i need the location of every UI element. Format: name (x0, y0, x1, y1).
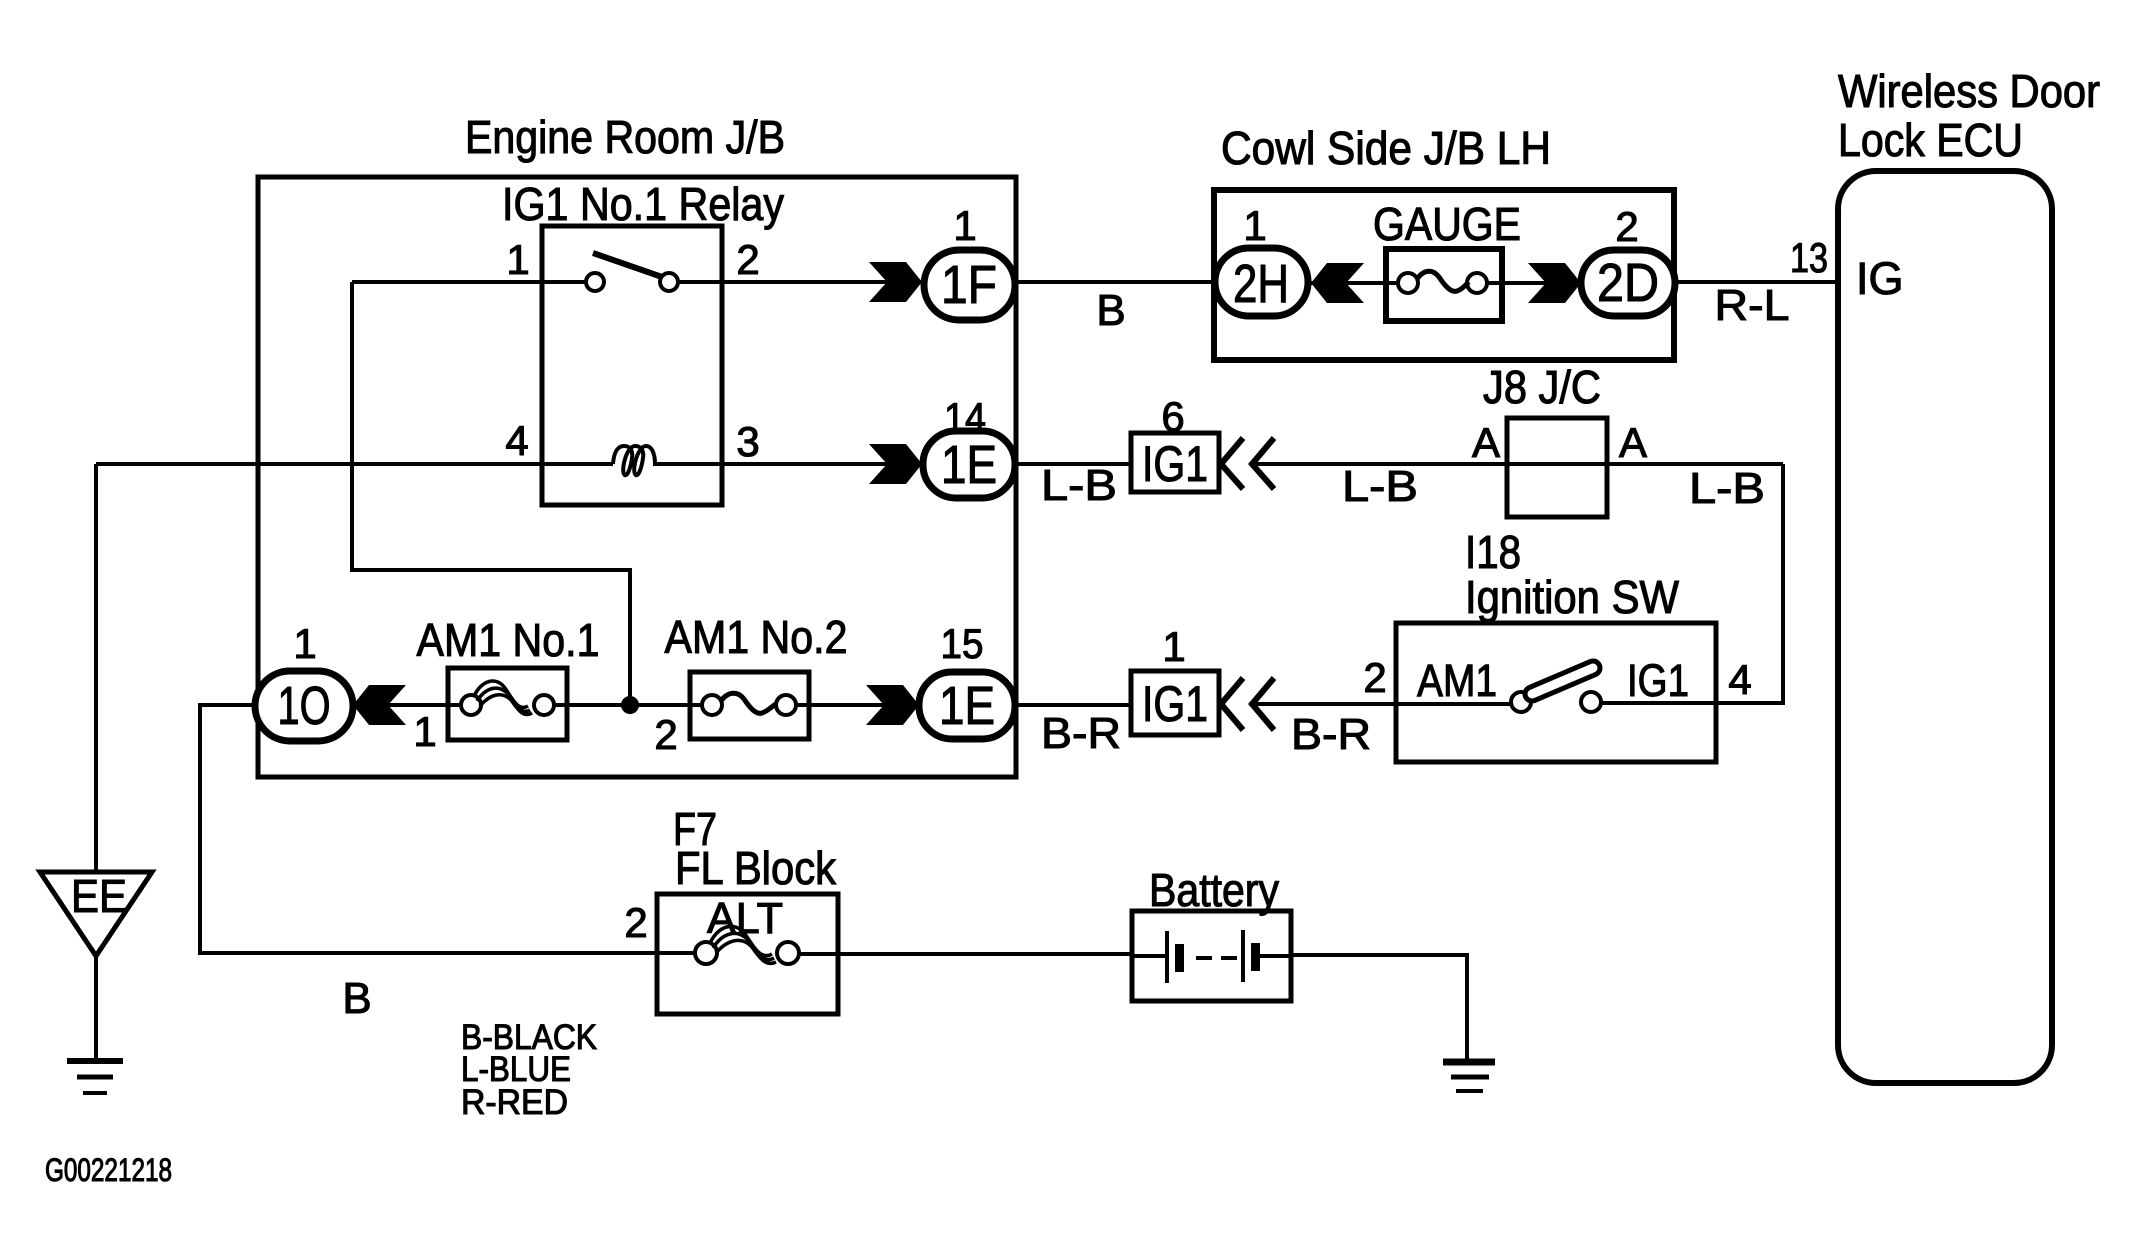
wire: FL block to battery net B (788, 952, 1134, 956)
svg-text:L-B: L-B (1689, 464, 1765, 513)
relay K1 switch blade (593, 253, 662, 277)
fuse F3 GAUGE element (1398, 271, 1487, 293)
battery BAT1 box (1132, 911, 1291, 1001)
svg-text:EE: EE (71, 870, 127, 922)
svg-text:Cowl Side J/B LH: Cowl Side J/B LH (1221, 122, 1551, 174)
arrow out of 1O leftward (353, 685, 406, 725)
svg-text:2: 2 (654, 711, 677, 758)
svg-text:Engine Room J/B: Engine Room J/B (465, 111, 785, 163)
wire: relay coil pin3 to connector 1E (653, 462, 925, 466)
wire: battery positive to ground (1289, 955, 1467, 1061)
wire: AM1 No.2 to 1E row3 (786, 703, 921, 707)
ECU U1: Wireless Door Lock ECU body (1838, 171, 2052, 1083)
svg-text:4: 4 (1728, 656, 1751, 703)
wire: relay pin1 vertical jog to junction (352, 282, 630, 705)
svg-text:G00221218: G00221218 (45, 1152, 172, 1188)
wire: 2D to ECU pin13 net R-L (1673, 280, 1841, 284)
wire: AM1 No.1 to AM1 No.2 through junction (544, 703, 712, 707)
arrow feed into 1F (869, 262, 922, 302)
svg-text:IG1: IG1 (1627, 655, 1689, 706)
connector IG1 box row2 (1131, 433, 1219, 492)
svg-text:6: 6 (1161, 393, 1184, 440)
relay K1 switch contact circle pin2 side (660, 273, 678, 291)
svg-text:B-R: B-R (1041, 709, 1121, 758)
chevron pair on IG1 row3 harness side (1221, 678, 1274, 730)
junction connector J8 J/C box (1507, 418, 1607, 517)
fusible link FL1 AM1 No.1 element (461, 681, 554, 715)
wire: GAUGE fuse to 2D (1476, 281, 1583, 285)
svg-text:IG1: IG1 (1142, 436, 1208, 492)
svg-text:L-B: L-B (1041, 461, 1117, 510)
relay K1: IG1 No.1 Relay box (542, 226, 722, 505)
svg-text:15: 15 (941, 620, 984, 667)
svg-text:Wireless Door: Wireless Door (1838, 65, 2100, 117)
svg-text:1: 1 (1162, 623, 1185, 670)
connector oval 1F pin1 (924, 250, 1015, 320)
svg-text:AM1 No.1: AM1 No.1 (417, 614, 600, 666)
svg-text:2: 2 (624, 899, 647, 946)
switch S1 ignition lever (1532, 668, 1593, 694)
svg-text:ALT: ALT (707, 894, 783, 943)
svg-text:2H: 2H (1233, 254, 1289, 314)
connector IG1 box row3 (1131, 671, 1219, 735)
fusible link FL2: F7 FL Block box (657, 894, 838, 1014)
wire: 2H to GAUGE fuse (1306, 281, 1408, 285)
svg-text:Ignition SW: Ignition SW (1465, 571, 1680, 623)
wire: 1O stub to left vertical (198, 703, 258, 707)
connector oval 2D pin2 (1581, 250, 1675, 316)
svg-text:1E: 1E (939, 676, 995, 736)
svg-text:GAUGE: GAUGE (1373, 198, 1521, 250)
wire: 1F to 2H net B (1013, 280, 1217, 284)
connector oval 1E pin14 (923, 431, 1015, 498)
svg-text:1F: 1F (941, 255, 997, 315)
svg-text:14: 14 (944, 394, 986, 441)
svg-text:IG1: IG1 (1142, 676, 1208, 732)
connector oval 2H pin1 (1215, 248, 1308, 316)
wire: EE ground feed to relay coil pin4 (96, 462, 613, 466)
svg-text:1: 1 (953, 202, 976, 249)
svg-text:1: 1 (506, 236, 529, 283)
svg-text:AM1: AM1 (1417, 655, 1497, 706)
wire: 1E row3 to IG1 row3 net B-R (1013, 703, 1133, 707)
wire: IG1 row3 chevron to ignition switch AM1 pin2 net B-R (1252, 702, 1521, 706)
relay K1 switch contact circle pin1 side (586, 273, 604, 291)
svg-text:B: B (1096, 286, 1125, 335)
svg-text:1O: 1O (278, 676, 331, 736)
wire: relay pin2 to connector 1F (678, 280, 926, 284)
wire: ignition switch IG1 contact to pin4 (1591, 701, 1685, 705)
svg-text:IG: IG (1856, 253, 1904, 304)
junction dot node between AM1 No.1 and AM1 No.2 (621, 696, 639, 714)
svg-text:Lock ECU: Lock ECU (1838, 114, 2023, 166)
wire: 1O arrow to AM1 No.1 (353, 703, 471, 707)
junction box J/B2: Cowl Side J/B LH outline (1214, 190, 1674, 360)
connector oval 1E pin15 (919, 672, 1015, 739)
switch S1 ignition contact circle AM1 (1511, 692, 1531, 712)
svg-text:FL Block: FL Block (675, 842, 837, 894)
arrow feed into 1E row2 (869, 444, 922, 484)
svg-text:A: A (1619, 419, 1647, 466)
relay K1 coil (613, 446, 655, 475)
svg-text:1: 1 (1243, 202, 1266, 249)
svg-text:L-B: L-B (1342, 462, 1418, 511)
fuse F2: AM1 No.2 box (690, 672, 809, 739)
wire: IG1 chevron to J8 and beyond net L-B (1252, 462, 1783, 466)
svg-text:2D: 2D (1597, 253, 1659, 313)
switch S1 ignition contact circle IG1 (1581, 692, 1601, 712)
svg-text:1: 1 (413, 708, 436, 755)
svg-text:2: 2 (736, 236, 759, 283)
arrow out of 2H leftward (1311, 263, 1364, 303)
svg-text:J8 J/C: J8 J/C (1483, 361, 1601, 413)
fuse F2 AM1 No.2 element (702, 693, 796, 715)
svg-text:AM1 No.2: AM1 No.2 (665, 611, 848, 663)
svg-text:1: 1 (293, 620, 316, 667)
chevron pair on IG1 row2 harness side (1221, 438, 1274, 489)
svg-text:2: 2 (1363, 654, 1386, 701)
svg-text:1E: 1E (941, 435, 997, 495)
switch S1: I18 Ignition SW box (1396, 623, 1716, 762)
svg-text:IG1 No.1 Relay: IG1 No.1 Relay (502, 178, 784, 230)
svg-text:13: 13 (1790, 234, 1828, 281)
svg-text:4: 4 (505, 417, 528, 464)
svg-text:3: 3 (736, 418, 759, 465)
wire: 1E row2 to IG1 connector net L-B (1013, 462, 1133, 466)
wire: left vertical down to FL block net B (200, 705, 706, 953)
ground symbol below EE (67, 1061, 123, 1093)
connector oval 1O pin1 (255, 671, 353, 741)
fusible link FL1: AM1 No.1 box (448, 668, 567, 740)
fusible link FL2 ALT element (695, 926, 799, 964)
svg-text:Battery: Battery (1149, 864, 1279, 916)
svg-text:R-L: R-L (1715, 281, 1790, 330)
ground EE triangle (40, 872, 152, 956)
wire: EE triangle to ground symbol (94, 955, 98, 1061)
junction box J/B1: Engine Room J/B outline (258, 177, 1016, 777)
svg-text:2: 2 (1615, 203, 1638, 250)
svg-text:B: B (342, 974, 371, 1023)
svg-text:A: A (1472, 419, 1500, 466)
arrow feed into 1E row3 (866, 685, 919, 725)
ground symbol below battery (1443, 1062, 1495, 1091)
arrow feed into 2D (1528, 263, 1581, 303)
svg-text:B-R: B-R (1291, 710, 1371, 759)
svg-text:R-RED: R-RED (461, 1083, 568, 1122)
battery BAT1 cell plates (1132, 930, 1291, 983)
fuse F3: GAUGE fuse box (1386, 249, 1502, 321)
wire: EE vertical lead (94, 464, 98, 874)
wire: vertical drop to ignition switch pin4 (1604, 464, 1783, 703)
wire: relay pin1 feed horizontal (352, 280, 587, 284)
